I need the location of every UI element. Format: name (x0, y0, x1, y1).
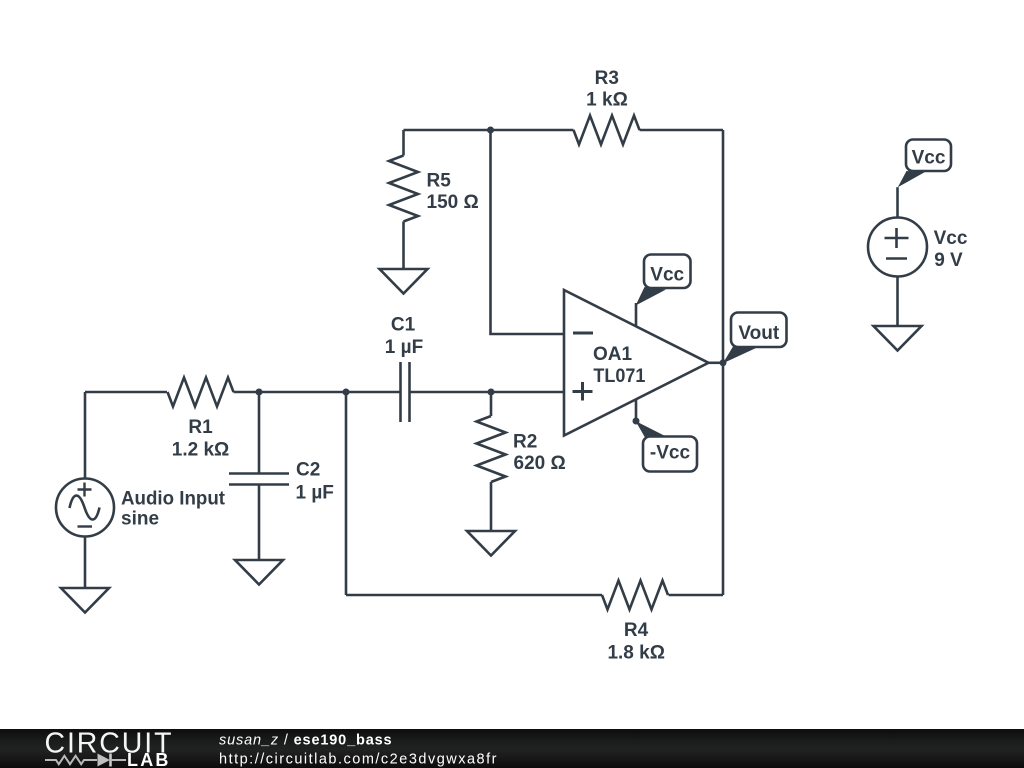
svg-text:150 Ω: 150 Ω (427, 192, 479, 213)
wire source to ground (84, 537, 87, 589)
svg-text:R4: R4 (624, 620, 649, 641)
node junction R2 tap (op-amp + input) (488, 389, 495, 396)
ground G3 (467, 531, 515, 556)
label V2 Vcc 9V (934, 228, 968, 271)
ground G5 (874, 326, 922, 351)
resistor R2 (477, 416, 506, 482)
label R1 1.2 k (172, 417, 230, 461)
capacitor C1 (401, 362, 410, 422)
wire C2 branch lower (258, 485, 261, 561)
wire output vertical (722, 130, 725, 595)
svg-text:R3: R3 (595, 68, 619, 89)
net flag Vcc (op-amp) (636, 255, 691, 306)
wire top net left segment (404, 129, 574, 132)
svg-text:http://circuitlab.com/c2e3dvgw: http://circuitlab.com/c2e3dvgwxa8fr (219, 752, 498, 768)
svg-text:Vcc: Vcc (912, 148, 946, 169)
svg-text:sine: sine (121, 509, 159, 530)
svg-text:Vout: Vout (738, 323, 779, 344)
label C2 1uF (296, 460, 334, 504)
svg-text:1.2 kΩ: 1.2 kΩ (172, 440, 230, 461)
footer logo resistor-diode glyph (45, 754, 126, 767)
wire inverting input vertical (491, 130, 565, 334)
ground G4 (380, 269, 428, 294)
label R2 620 (513, 431, 566, 474)
ground G2 (235, 560, 283, 585)
net flag Vout (723, 313, 787, 364)
label V1 Audio Input sine (121, 489, 226, 530)
node -Vcc pin dot (633, 418, 640, 425)
svg-text:LAB: LAB (127, 750, 171, 768)
wire Vcc stub (635, 303, 638, 326)
wire top net right segment (640, 129, 724, 132)
resistor R3 (574, 116, 640, 145)
svg-text:Vcc: Vcc (934, 228, 968, 249)
wire Vcc source lower (896, 277, 899, 327)
label R5 150 (427, 171, 479, 214)
svg-text:susan_z / ese190_bass: susan_z / ese190_bass (219, 733, 392, 749)
svg-text:1 µF: 1 µF (296, 482, 334, 503)
voltage source V1 sine (56, 479, 114, 537)
svg-text:Vcc: Vcc (650, 265, 684, 286)
svg-text:OA1: OA1 (593, 344, 633, 365)
net flag -Vcc (636, 421, 698, 472)
label R3 1k (586, 68, 628, 110)
net flag Vcc (source) (898, 140, 951, 188)
footer logo CIRCUIT LAB (45, 727, 174, 768)
label R4 1.8k (607, 620, 665, 664)
svg-text:1 µF: 1 µF (385, 337, 423, 358)
resistor R5 (389, 130, 418, 269)
svg-text:9 V: 9 V (934, 250, 963, 271)
wire bottom net right segment (669, 594, 724, 597)
voltage source V2 Vcc 9V (868, 218, 927, 277)
svg-text:C1: C1 (391, 314, 416, 335)
wire op-amp output (709, 361, 724, 364)
node junction inverting feedback (487, 127, 494, 134)
svg-text:R2: R2 (513, 431, 537, 452)
svg-text:R1: R1 (188, 417, 213, 438)
svg-text:1 kΩ: 1 kΩ (586, 89, 628, 110)
wire feedback bottom left vertical (345, 392, 348, 595)
svg-text:TL071: TL071 (593, 366, 645, 387)
svg-text:620 Ω: 620 Ω (514, 453, 566, 474)
wire C2 branch upper (258, 392, 261, 473)
ground G1 (61, 588, 109, 613)
label OA1 TL071 (593, 344, 646, 387)
op-amp OA1 (564, 290, 709, 436)
svg-text:Audio Input: Audio Input (121, 489, 226, 510)
svg-text:R5: R5 (427, 171, 452, 192)
svg-text:C2: C2 (296, 460, 320, 481)
label C1 1uF (385, 314, 423, 357)
wire left vertical to source (84, 392, 87, 479)
resistor R1 (168, 378, 234, 407)
footer bar (0, 729, 1024, 768)
wire -Vcc stub (635, 399, 638, 421)
node junction feedback tap (343, 389, 350, 396)
svg-text:1.8 kΩ: 1.8 kΩ (607, 643, 665, 664)
resistor R4 (602, 581, 668, 610)
node junction C2 tap (256, 389, 263, 396)
wire main input net (mid horizontal) (85, 391, 564, 394)
svg-text:-Vcc: -Vcc (650, 443, 691, 464)
capacitor C2 (229, 474, 289, 485)
node junction output (720, 359, 727, 366)
wire R2 branch upper (490, 392, 493, 416)
wire R2 branch lower (490, 482, 493, 531)
wire Vcc source upper (896, 187, 899, 218)
wire bottom net left segment (346, 594, 602, 597)
